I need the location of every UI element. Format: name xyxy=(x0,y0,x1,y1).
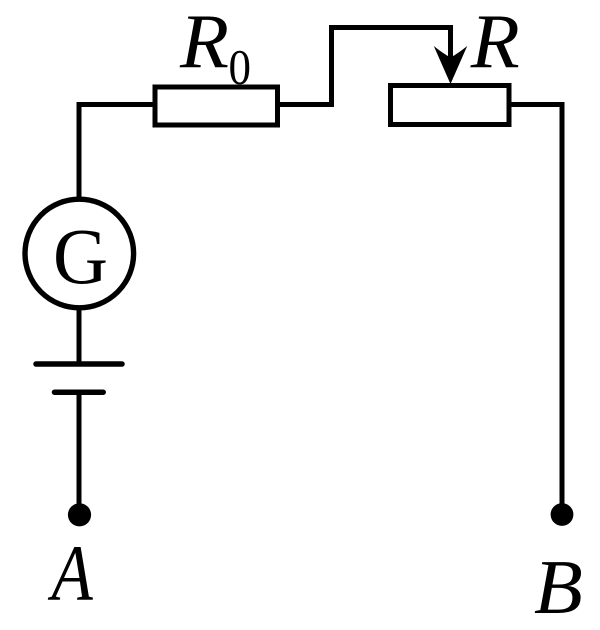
slider arrow of rheostat R xyxy=(434,46,467,84)
svg-text:R: R xyxy=(470,0,520,84)
battery short plate xyxy=(55,389,104,395)
wire from rheostat right lead down to terminal B xyxy=(509,105,562,506)
wire from battery to terminal A xyxy=(77,392,82,506)
svg-text:A: A xyxy=(47,531,93,618)
rheostat R (resistor body) xyxy=(391,86,510,125)
svg-text:0: 0 xyxy=(229,38,252,94)
resistor R0 xyxy=(155,87,278,125)
wire from galvanometer top to resistor R0 left lead xyxy=(79,105,153,199)
terminal A (dot) xyxy=(68,503,91,526)
svg-text:B: B xyxy=(534,544,583,630)
svg-text:G: G xyxy=(53,214,108,301)
svg-text:R: R xyxy=(179,0,229,84)
galvanometer G (circle) xyxy=(25,199,134,308)
terminal B (dot) xyxy=(551,503,574,526)
wire from galvanometer bottom to battery xyxy=(77,308,82,362)
battery long plate xyxy=(36,361,122,367)
wire from R0 right lead up and over to slider arrow of R xyxy=(277,28,451,105)
